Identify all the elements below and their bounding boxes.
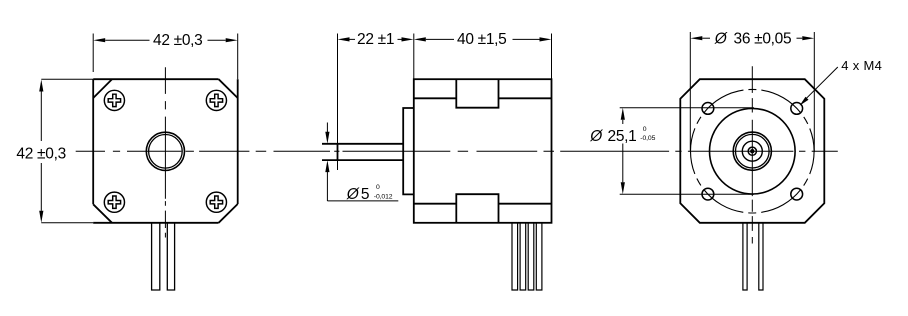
dimension 40: line segments [426, 38, 454, 40]
rotor circle [742, 141, 762, 161]
svg-text:42 ±0,3: 42 ±0,3 [16, 145, 66, 162]
dimension dia25.1: arrows [621, 108, 625, 120]
front body right edge [237, 79, 239, 204]
front vertical centerline [164, 67, 166, 237]
rear octagon outline [680, 79, 824, 223]
dimension dia36: arrows [690, 36, 702, 40]
svg-text:0: 0 [643, 126, 647, 133]
dimension 22: body-left extension [413, 34, 415, 80]
bearing double circle outer [733, 132, 771, 170]
M4 hole bottom-left [702, 188, 714, 200]
shaft top line [322, 143, 403, 145]
front center pilot circle inner [149, 135, 183, 169]
dimension 42 top: arrows [93, 38, 105, 42]
svg-text:Ø: Ø [714, 31, 728, 48]
shaft bottom line [322, 159, 403, 161]
screw top-right [206, 90, 226, 110]
chamfer bottom-left [93, 204, 112, 223]
dimension 22: extension line at shaft tip [337, 34, 339, 171]
dimension dia36: extension lines [689, 32, 691, 152]
dimension 40: right extension [551, 34, 553, 80]
global horizontal centerline [76, 150, 838, 152]
front body bottom edge [93, 222, 218, 224]
svg-text:-0,05: -0,05 [640, 135, 655, 142]
M4 hole bottom-right [791, 188, 803, 200]
screw top-left [104, 90, 124, 110]
svg-text:Ø: Ø [346, 186, 360, 203]
dimension dia36: line segments [702, 37, 710, 39]
dimension dia5: vertical line + arrows [326, 123, 328, 133]
side wires (4) [512, 223, 518, 290]
shaft end circle [748, 147, 756, 155]
chamfer line bottom [414, 203, 552, 205]
dimension 42 top: extension lines [92, 34, 94, 73]
chamfer line top [414, 97, 552, 99]
boss circle dia25.1 [710, 108, 796, 194]
svg-text:0: 0 [376, 184, 380, 191]
dimension dia25.1: extension lines [620, 107, 754, 109]
screw bottom-right [206, 192, 226, 212]
svg-text:40 ±1,5: 40 ±1,5 [457, 31, 507, 48]
dimension 22: line segments [350, 38, 402, 40]
svg-text:36 ±0,05: 36 ±0,05 [734, 31, 792, 48]
svg-text:22 ±1: 22 ±1 [357, 31, 394, 48]
chamfer top-left [93, 79, 112, 98]
svg-text:-0,012: -0,012 [374, 193, 393, 200]
front boss [403, 108, 414, 194]
front wire right [167, 223, 174, 290]
rear wire left [743, 223, 747, 290]
svg-text:Ø: Ø [589, 128, 603, 145]
stack bump top [456, 79, 498, 108]
chamfer bottom-right [219, 204, 238, 223]
dimension 22: arrows [338, 37, 350, 41]
label 4xM4 leader [803, 67, 838, 102]
svg-text:5: 5 [361, 186, 370, 203]
bearing double circle inner [736, 134, 770, 168]
stack bump bottom [456, 194, 498, 223]
front center pilot circle outer [146, 132, 184, 170]
bolt circle dia36 (dashed) [691, 89, 815, 213]
dimension dia5: leader underline [327, 200, 398, 202]
shaft center dot [750, 149, 754, 153]
M4 hole top-right [791, 103, 803, 115]
front wire left [152, 223, 160, 290]
svg-text:25,1: 25,1 [608, 128, 637, 145]
dimension 42 left: extension lines [41, 78, 93, 80]
chamfer top-right [219, 79, 238, 98]
dimension 42 left: line segments [40, 92, 42, 142]
dimension 40: arrows [414, 37, 426, 41]
M4 hole top-left [702, 103, 714, 115]
screw bottom-left [104, 192, 124, 212]
dimension dia25.1: line segments [622, 120, 624, 124]
shaft tip edge [337, 144, 339, 160]
svg-text:4 x M4: 4 x M4 [841, 58, 882, 73]
side body outline [414, 79, 552, 223]
svg-text:42 ±0,3: 42 ±0,3 [153, 32, 203, 49]
dimension 42 left: arrows [39, 80, 43, 92]
rear vertical centerline [751, 66, 753, 243]
rear wire right [759, 223, 763, 290]
front body left edge [92, 79, 94, 204]
front body top edge [93, 78, 218, 80]
dimension 42 top: line segments [105, 39, 149, 41]
